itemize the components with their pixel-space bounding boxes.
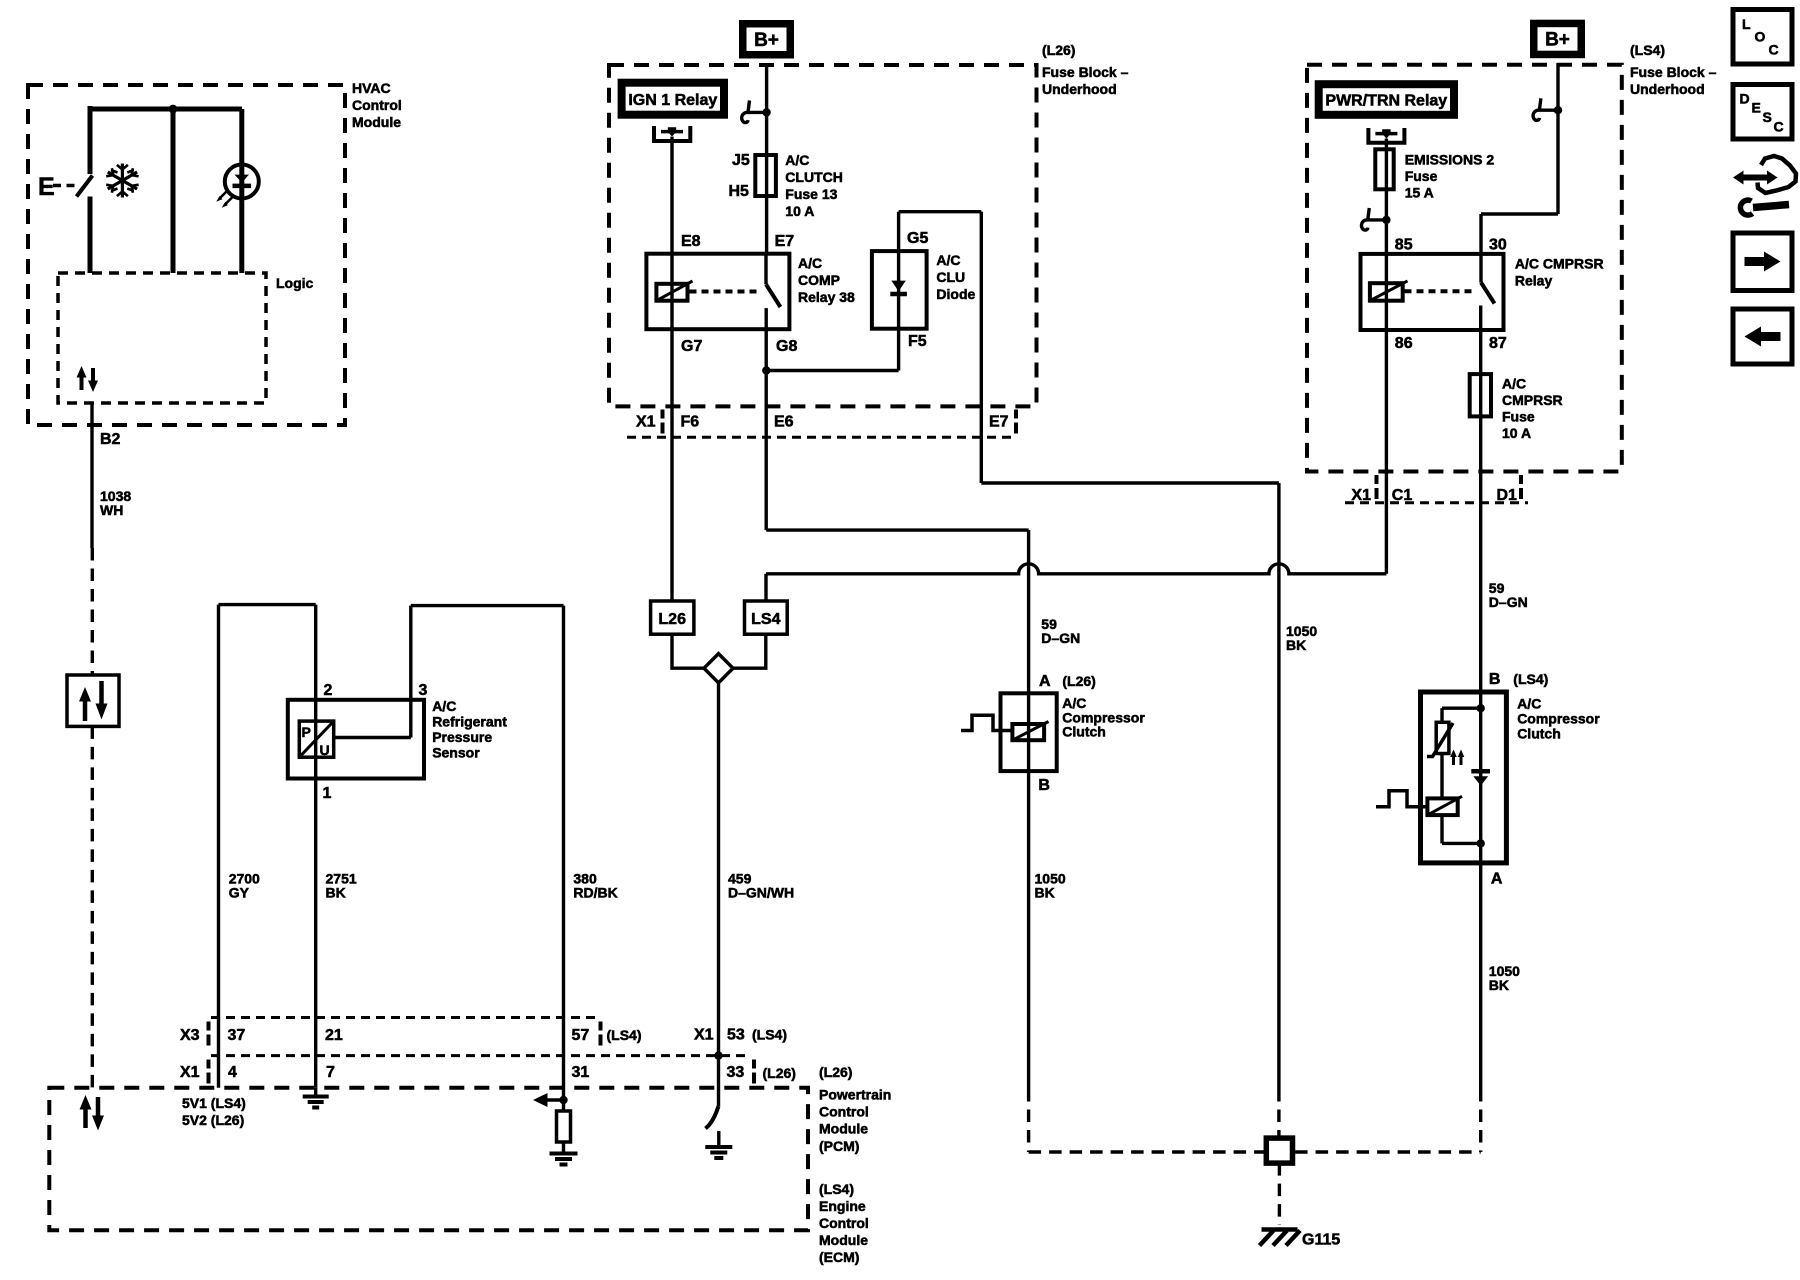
clutch L26 PWM control input xyxy=(961,715,1012,730)
wire: switch upper lead xyxy=(88,106,93,174)
wire: splice bus with hops to C1 xyxy=(766,564,1386,574)
svg-text:O: O xyxy=(1755,29,1766,45)
sidebar service icon (arrows and wrench) xyxy=(1733,156,1796,215)
svg-text:37: 37 xyxy=(228,1027,246,1044)
svg-text:E6: E6 xyxy=(774,414,794,431)
node: clutch LS4 top junction xyxy=(1477,704,1485,712)
svg-text:Refrigerant: Refrigerant xyxy=(432,714,507,730)
svg-text:E8: E8 xyxy=(681,233,701,250)
wire: fuse to D1 and clutch B xyxy=(1479,416,1482,692)
svg-text:C1: C1 xyxy=(1392,487,1413,504)
svg-text:Underhood: Underhood xyxy=(1042,81,1117,97)
svg-text:X1: X1 xyxy=(636,414,656,431)
wire: junction to Logic xyxy=(171,109,176,273)
sidebar prev-page arrow box xyxy=(1733,309,1792,364)
clutch L26 feed-through wire xyxy=(1027,693,1030,771)
svg-text:21: 21 xyxy=(325,1027,343,1044)
svg-text:Pressure: Pressure xyxy=(432,729,492,745)
svg-text:A/C: A/C xyxy=(798,255,822,271)
svg-text:HVAC: HVAC xyxy=(352,80,391,96)
svg-text:31: 31 xyxy=(572,1064,590,1081)
dashed wire to G115 xyxy=(1278,1163,1281,1225)
PCM/ECM connector row X1 xyxy=(211,1054,750,1057)
svg-text:CLU: CLU xyxy=(936,269,965,285)
svg-text:COMP: COMP xyxy=(798,272,840,288)
svg-text:(L26): (L26) xyxy=(819,1064,852,1080)
B+ terminal (right) xyxy=(1530,20,1585,59)
svg-text:D–GN: D–GN xyxy=(1489,594,1528,610)
svg-text:Compressor: Compressor xyxy=(1517,711,1600,727)
node: top bus junction xyxy=(169,105,178,114)
EMISSIONS 2 fuse body xyxy=(1375,149,1393,189)
sidebar next-page arrow box xyxy=(1733,233,1792,291)
CMPRSR relay coil xyxy=(1370,283,1403,301)
bus tap hook at EMISSIONS wire xyxy=(1362,208,1391,230)
in-line connector box with arrows on 1038 WH xyxy=(67,675,119,726)
snowflake icon (A/C) xyxy=(106,164,138,198)
wire: G7 down to L26 connector tag xyxy=(670,329,673,601)
B+ terminal (left) xyxy=(739,20,794,59)
wire: fuse 13 to E7 xyxy=(765,196,768,254)
svg-text:Relay 38: Relay 38 xyxy=(798,289,855,305)
svg-text:A/C: A/C xyxy=(432,698,456,714)
svg-text:B2: B2 xyxy=(100,431,121,448)
connector tag LS4 xyxy=(745,601,788,634)
svg-text:2: 2 xyxy=(324,682,333,699)
svg-text:Sensor: Sensor xyxy=(432,745,480,761)
sensor feed-through wire xyxy=(314,700,317,779)
svg-text:A/C: A/C xyxy=(1502,376,1526,392)
svg-text:15 A: 15 A xyxy=(1405,185,1434,201)
svg-text:B: B xyxy=(1038,777,1050,794)
svg-text:Module: Module xyxy=(819,1232,868,1248)
LED indicator circle xyxy=(225,165,259,199)
CMPRSR relay switch xyxy=(1479,254,1482,283)
wire 1038 WH dashed upper xyxy=(91,548,94,675)
svg-text:X1: X1 xyxy=(1351,487,1371,504)
svg-text:4: 4 xyxy=(228,1064,237,1081)
splice block junction square xyxy=(1266,1138,1292,1163)
bidirectional arrows in Logic box xyxy=(77,366,99,392)
LED diode bar xyxy=(233,184,252,189)
svg-text:X1: X1 xyxy=(694,1027,714,1044)
node: 459 wire at row xyxy=(714,1051,722,1059)
svg-text:5V2 (L26): 5V2 (L26) xyxy=(182,1112,244,1128)
svg-text:Control: Control xyxy=(352,97,402,113)
svg-text:B+: B+ xyxy=(1545,30,1570,51)
svg-text:(L26): (L26) xyxy=(1042,42,1075,58)
A/C Compressor Clutch (LS4) box xyxy=(1421,692,1507,863)
A/C CLU Diode loop wires xyxy=(766,212,981,483)
A/C CLU Diode box xyxy=(872,251,927,329)
A/C Refrigerant Pressure Sensor box xyxy=(288,700,424,779)
svg-text:P: P xyxy=(302,724,311,740)
wire 459 D-GN/WH down to PCM xyxy=(717,683,720,1106)
A/C CMPRSR Relay box xyxy=(1361,254,1504,330)
svg-text:87: 87 xyxy=(1489,335,1507,352)
svg-text:X3: X3 xyxy=(180,1027,200,1044)
CMPRSR relay dashed link xyxy=(1405,289,1476,293)
svg-text:D: D xyxy=(1740,91,1750,107)
wire 1050 BK dashed drops to ground bus xyxy=(1029,1089,1481,1152)
svg-text:Module: Module xyxy=(352,114,401,130)
A/C Compressor Clutch (L26) box xyxy=(1001,693,1057,771)
LED emission arrows xyxy=(220,191,234,205)
svg-text:B: B xyxy=(1489,671,1501,688)
diode symbol xyxy=(891,281,905,292)
Fuse Block Underhood (L26) dashed box xyxy=(609,65,1037,406)
svg-text:A: A xyxy=(1039,673,1051,690)
connector X1 row (left fuse block) xyxy=(627,436,1017,439)
svg-text:Control: Control xyxy=(819,1215,869,1231)
sidebar DESC box xyxy=(1733,85,1792,140)
P/U transducer square xyxy=(299,721,333,757)
wire 1050 BK from L26 clutch xyxy=(1027,771,1030,1089)
svg-text:CLUTCH: CLUTCH xyxy=(785,169,843,185)
bus tap hook at B+ (left) xyxy=(742,101,771,123)
svg-text:10 A: 10 A xyxy=(1502,425,1531,441)
LED indicator lead xyxy=(239,109,244,273)
Fuse Block Underhood (LS4) dashed box xyxy=(1307,65,1622,472)
svg-text:(LS4): (LS4) xyxy=(1630,42,1665,58)
A/C CMPRSR fuse body xyxy=(1470,374,1491,416)
IGN 1 Relay output bracket symbol xyxy=(654,126,690,141)
PWR/TRN Relay output bracket symbol xyxy=(1368,128,1404,143)
svg-text:(L26): (L26) xyxy=(1062,673,1095,689)
relay 38 coil-switch dashed link xyxy=(690,290,761,294)
svg-text:(LS4): (LS4) xyxy=(819,1181,854,1197)
svg-text:Diode: Diode xyxy=(936,286,975,302)
svg-text:Fuse: Fuse xyxy=(1405,168,1438,184)
svg-text:BK: BK xyxy=(1489,977,1509,993)
svg-text:E7: E7 xyxy=(775,233,795,250)
wire: bracket to EMISSIONS fuse xyxy=(1385,139,1388,150)
HVAC Control Module dashed box xyxy=(28,85,345,425)
resistor at pin 31 xyxy=(557,1111,571,1142)
wire: G8 down, E6 feed xyxy=(765,329,768,530)
svg-text:G7: G7 xyxy=(681,338,702,355)
wire: 87 to A/C CMPRSR fuse xyxy=(1479,330,1482,374)
svg-text:A/C: A/C xyxy=(1517,696,1541,712)
wire: dashed actuation E to switch xyxy=(53,184,75,188)
svg-text:L: L xyxy=(1742,16,1751,32)
svg-text:F6: F6 xyxy=(681,414,700,431)
sensor internal link to pin 3 xyxy=(334,700,411,738)
svg-text:3: 3 xyxy=(419,682,428,699)
svg-text:GY: GY xyxy=(229,885,250,901)
svg-text:(PCM): (PCM) xyxy=(819,1138,859,1154)
wire 2751 BK (pin1 down) xyxy=(314,779,317,1088)
wire: 86 to C1 xyxy=(1385,330,1388,574)
svg-text:B+: B+ xyxy=(754,30,779,51)
svg-text:10 A: 10 A xyxy=(785,203,814,219)
connector X1 row (right fuse block) xyxy=(1345,501,1528,504)
svg-text:IGN 1 Relay: IGN 1 Relay xyxy=(628,92,717,109)
svg-text:Fuse Block –: Fuse Block – xyxy=(1630,64,1717,80)
clutch LS4 PWM control input xyxy=(1376,791,1427,807)
relay 38 coil xyxy=(656,284,687,301)
svg-text:J5: J5 xyxy=(732,152,750,169)
svg-text:G115: G115 xyxy=(1302,1232,1340,1249)
svg-text:L26: L26 xyxy=(658,611,686,628)
ground bus dashed wire xyxy=(1029,1150,1481,1153)
svg-text:57: 57 xyxy=(572,1027,590,1044)
Logic dashed box xyxy=(58,273,266,403)
PCM/ECM dashed box xyxy=(49,1088,808,1230)
svg-text:A/C: A/C xyxy=(936,252,960,268)
svg-text:EMISSIONS 2: EMISSIONS 2 xyxy=(1405,152,1495,168)
svg-text:G5: G5 xyxy=(907,230,928,247)
svg-text:LS4: LS4 xyxy=(751,611,780,628)
svg-text:D–GN: D–GN xyxy=(1041,630,1080,646)
svg-text:BK: BK xyxy=(326,885,346,901)
svg-text:86: 86 xyxy=(1395,335,1413,352)
PCM/ECM connector row X3 xyxy=(211,1016,598,1019)
svg-text:Underhood: Underhood xyxy=(1630,81,1705,97)
svg-text:Engine: Engine xyxy=(819,1198,866,1214)
A/C Refrigerant Pressure Sensor loop wires xyxy=(219,605,316,1088)
splice diamond xyxy=(704,654,733,683)
svg-text:E: E xyxy=(38,173,55,201)
svg-text:85: 85 xyxy=(1395,237,1413,254)
A/C COMP Relay 38 box xyxy=(646,254,789,330)
svg-text:Powertrain: Powertrain xyxy=(819,1087,891,1103)
node: clutch LS4 bottom junction xyxy=(1477,839,1485,847)
wire: E7 branch to 1050 BK xyxy=(981,483,1279,1089)
wire: B+ right down and over to pin 30 xyxy=(1481,63,1558,254)
svg-text:E7: E7 xyxy=(989,414,1009,431)
svg-text:X1: X1 xyxy=(180,1064,200,1081)
svg-text:PWR/TRN Relay: PWR/TRN Relay xyxy=(1325,93,1447,110)
wire: HVAC internal top bus xyxy=(90,107,242,112)
svg-text:G8: G8 xyxy=(776,338,797,355)
svg-text:BK: BK xyxy=(1035,885,1055,901)
ground G115 symbol xyxy=(1262,1227,1298,1232)
clutch LS4 diode xyxy=(1471,769,1490,774)
svg-text:C: C xyxy=(1774,119,1784,135)
relay 38 switch xyxy=(764,254,767,285)
svg-text:BK: BK xyxy=(1286,637,1306,653)
svg-text:Fuse: Fuse xyxy=(1502,409,1535,425)
svg-text:C: C xyxy=(1769,42,1779,58)
switch S1 A/C request (blade) xyxy=(77,176,93,197)
clutch LS4 thermal fuse branch xyxy=(1440,708,1443,722)
node: G8/diode junction xyxy=(762,366,770,374)
svg-text:CMPRSR: CMPRSR xyxy=(1502,392,1563,408)
svg-text:53: 53 xyxy=(727,1027,745,1044)
svg-text:D1: D1 xyxy=(1497,487,1518,504)
IGN 1 Relay label box xyxy=(618,79,728,119)
svg-text:Logic: Logic xyxy=(276,275,314,291)
clutch L26 coil xyxy=(1012,724,1044,740)
svg-text:F5: F5 xyxy=(908,333,927,350)
svg-text:A/C CMPRSR: A/C CMPRSR xyxy=(1515,256,1604,272)
svg-text:Relay: Relay xyxy=(1515,273,1553,289)
svg-text:(LS4): (LS4) xyxy=(1513,671,1548,687)
svg-text:WH: WH xyxy=(100,502,123,518)
bidirectional arrows in PCM xyxy=(80,1095,105,1131)
svg-text:D–GN/WH: D–GN/WH xyxy=(728,885,794,901)
svg-text:A: A xyxy=(1491,871,1503,888)
svg-text:7: 7 xyxy=(326,1064,335,1081)
svg-text:(LS4): (LS4) xyxy=(752,1027,787,1043)
svg-text:A/C: A/C xyxy=(785,152,809,168)
wire 1038 WH dashed lower xyxy=(91,726,94,1087)
sidebar LOC box xyxy=(1733,10,1792,65)
svg-text:S: S xyxy=(1763,109,1772,125)
wire: E6 branch turn (59 D-GN upper) xyxy=(766,530,1028,693)
svg-text:RD/BK: RD/BK xyxy=(573,885,617,901)
clutch LS4 vent arrows xyxy=(1454,756,1462,765)
wire: B+ down to fuse 13 xyxy=(765,63,768,155)
svg-text:33: 33 xyxy=(727,1064,745,1081)
svg-text:30: 30 xyxy=(1489,237,1507,254)
PWR/TRN Relay label box xyxy=(1315,80,1458,119)
svg-text:1: 1 xyxy=(323,785,332,802)
svg-text:Control: Control xyxy=(819,1104,869,1120)
svg-text:5V1 (LS4): 5V1 (LS4) xyxy=(182,1095,246,1111)
connector tag L26 xyxy=(651,601,694,634)
svg-text:(ECM): (ECM) xyxy=(819,1249,859,1265)
svg-text:Fuse Block –: Fuse Block – xyxy=(1042,64,1129,80)
svg-text:Clutch: Clutch xyxy=(1517,726,1561,742)
svg-text:(LS4): (LS4) xyxy=(607,1027,642,1043)
wire: switch lower lead to Logic xyxy=(88,197,93,274)
fuse 13 A/C CLUTCH (body) xyxy=(755,155,776,196)
svg-text:Clutch: Clutch xyxy=(1062,724,1106,740)
wire: fuse to pin 85 xyxy=(1385,189,1388,254)
pin B2 wire (solid) xyxy=(90,403,93,548)
wire: bus drop to LS4 tag xyxy=(764,574,767,601)
clutch LS4 feed-through wire xyxy=(1479,692,1482,863)
svg-text:Module: Module xyxy=(819,1121,868,1137)
svg-text:H5: H5 xyxy=(729,183,750,200)
LED diode triangle xyxy=(235,175,249,183)
wire: LS4 tag to splice diamond xyxy=(733,634,766,668)
svg-text:E: E xyxy=(1752,100,1761,116)
pin 33 internal: switch to ground xyxy=(706,1106,719,1129)
svg-text:(L26): (L26) xyxy=(763,1065,796,1081)
svg-text:U: U xyxy=(320,742,330,758)
wire: IGN relay bracket to E8 xyxy=(670,137,673,254)
svg-text:Fuse 13: Fuse 13 xyxy=(785,186,837,202)
wire 1050 BK from LS4 clutch xyxy=(1479,863,1482,1089)
clutch LS4 coil xyxy=(1440,754,1443,799)
ground symbol at pin 7 xyxy=(314,1088,317,1095)
bus tap hook at right B+ xyxy=(1533,98,1562,120)
wire: L26 tag to splice diamond xyxy=(672,634,704,668)
ground below resistor xyxy=(550,1154,578,1165)
pin 31 internal: sense arrow xyxy=(559,1096,567,1104)
